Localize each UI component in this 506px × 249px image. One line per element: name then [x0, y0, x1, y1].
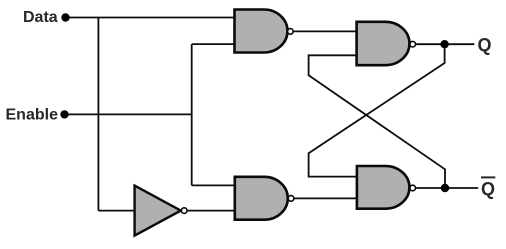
svg-text:Q: Q — [481, 179, 495, 199]
svg-text:Q: Q — [478, 35, 492, 55]
svg-text:Data: Data — [23, 9, 58, 26]
svg-text:Enable: Enable — [6, 106, 59, 123]
